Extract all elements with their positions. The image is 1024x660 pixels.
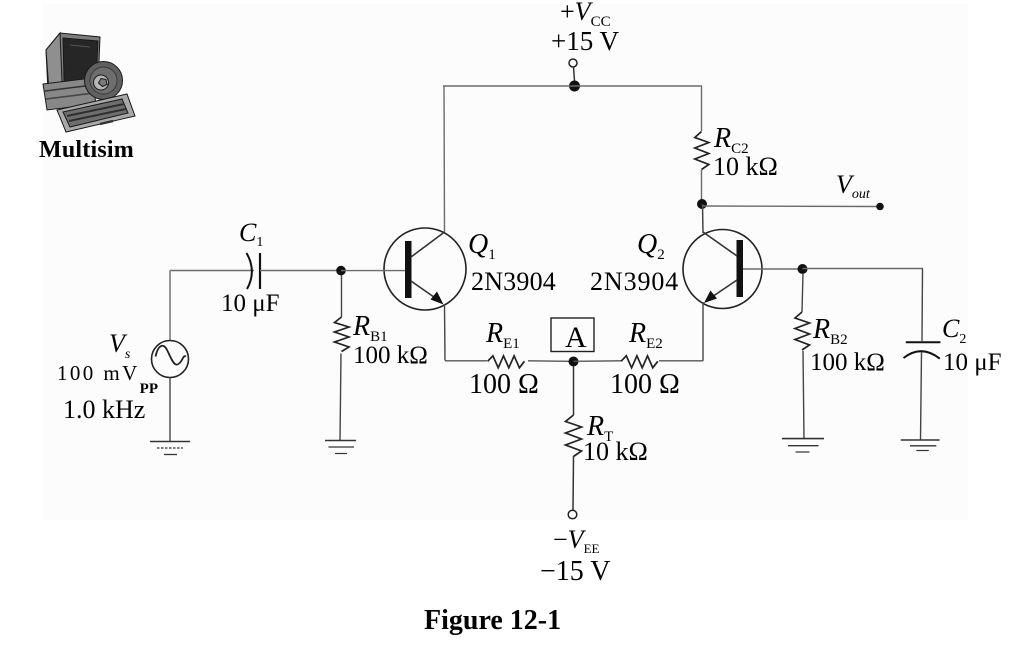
wire base to Q1	[341, 270, 405, 272]
node Vout junction	[697, 199, 707, 209]
Multisim icon	[43, 33, 135, 132]
wire RB2 top	[802, 273, 803, 312]
wire Q1 emitter down	[444, 305, 447, 361]
svg-text:100 Ω: 100 Ω	[469, 369, 539, 400]
svg-text:−15 V: −15 V	[540, 556, 611, 587]
wire base junction to C2	[803, 268, 924, 270]
wire RB2 bottom	[803, 351, 804, 439]
wire C1 to base junction	[260, 270, 337, 272]
capacitor C1	[247, 253, 252, 289]
wire RE1 to node A	[528, 360, 569, 363]
svg-text:A: A	[565, 321, 587, 354]
node A junction	[569, 357, 579, 367]
wire Vs bottom	[169, 378, 171, 442]
svg-text:10 kΩ: 10 kΩ	[583, 437, 648, 466]
wire RB1 top	[341, 275, 343, 317]
wire VCC terminal to rail	[574, 67, 575, 81]
wire input down to source	[169, 271, 171, 342]
wire VCC rail	[443, 85, 702, 87]
svg-text:10 μF: 10 μF	[221, 290, 280, 317]
capacitor C2	[906, 341, 941, 343]
svg-text:2N3904: 2N3904	[471, 267, 556, 296]
wire Vout node to Q2 collector	[702, 204, 705, 233]
transistor Q2	[683, 230, 762, 309]
node VCC junction	[569, 81, 580, 92]
source Vs	[152, 341, 189, 378]
node A box	[551, 318, 594, 352]
resistor RE1	[488, 356, 525, 368]
VEE terminal	[568, 510, 577, 519]
ground Vs	[150, 442, 190, 455]
wire Vout	[702, 205, 877, 208]
svg-text:Figure 12-1: Figure 12-1	[424, 605, 561, 636]
node Q2 base junction	[798, 264, 808, 274]
wire node A to RE2	[574, 360, 622, 363]
svg-text:+15 V: +15 V	[551, 26, 619, 56]
resistor RB1	[335, 317, 350, 352]
resistor RC2	[695, 132, 709, 170]
scan backdrop tint	[43, 4, 968, 520]
wire RC2 bottom	[701, 170, 703, 200]
svg-text:100 Ω: 100 Ω	[610, 369, 680, 400]
wire C2 riser	[921, 269, 924, 342]
resistor RE2	[621, 356, 658, 368]
node Q1 base junction	[336, 266, 346, 276]
svg-text:10 kΩ: 10 kΩ	[713, 152, 778, 181]
svg-text:100 kΩ: 100 kΩ	[353, 342, 428, 369]
wire Q1 collector riser	[443, 86, 446, 233]
node Vout end dot	[876, 203, 884, 211]
svg-text:100 kΩ: 100 kΩ	[810, 349, 885, 376]
ground C2	[901, 440, 940, 451]
wire input horizontal	[170, 270, 254, 272]
wire C2 bottom	[921, 352, 922, 440]
wire RT top	[573, 366, 575, 415]
svg-text:10 μF: 10 μF	[943, 349, 1002, 376]
ground RB1	[325, 441, 356, 454]
VCC terminal	[569, 59, 577, 67]
resistor RT	[566, 415, 582, 457]
svg-text:1.0 kHz: 1.0 kHz	[63, 395, 145, 424]
wire RT bottom	[572, 456, 575, 510]
svg-text:2N3904: 2N3904	[590, 267, 679, 296]
wire RE2 to Q2 emitter	[659, 360, 703, 362]
transistor Q1	[384, 228, 466, 310]
wire Q2 base	[743, 268, 798, 270]
svg-text:−VEE: −VEE	[553, 525, 600, 556]
svg-text:Multisim: Multisim	[39, 137, 134, 163]
ground RB2	[782, 439, 824, 452]
wire RC2 top	[701, 86, 703, 131]
wire RB1 bottom	[340, 354, 341, 442]
wire emitter rail left	[445, 360, 487, 362]
wire Q2 emitter down	[702, 302, 704, 361]
resistor RB2	[795, 312, 810, 350]
